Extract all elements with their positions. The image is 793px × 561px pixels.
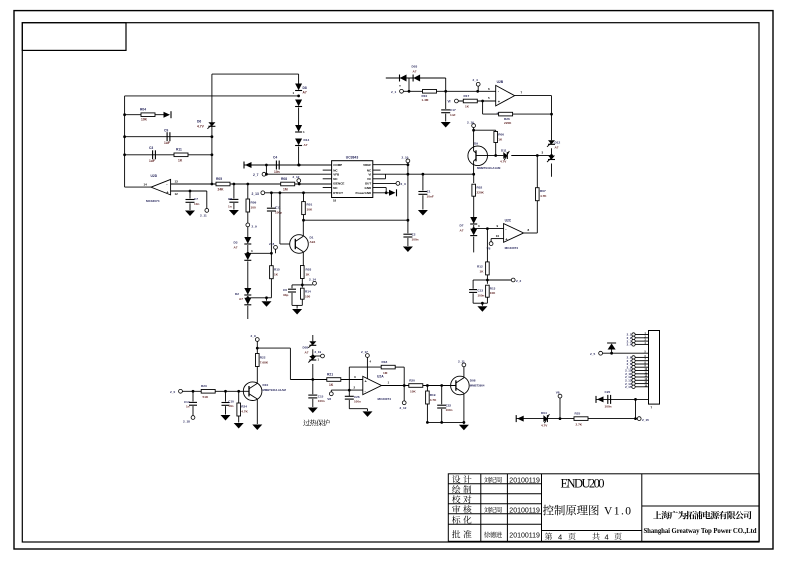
svg-text:A7: A7: [304, 143, 308, 147]
svg-text:C26: C26: [354, 395, 360, 399]
svg-text:C15: C15: [318, 395, 324, 399]
svg-text:2_9: 2_9: [252, 225, 257, 229]
svg-text:51K: 51K: [203, 395, 209, 399]
capacitor C11: [267, 193, 282, 254]
resistor R20: [409, 378, 423, 393]
svg-text:100n: 100n: [412, 238, 419, 242]
svg-text:1M: 1M: [283, 188, 288, 192]
title page 4 of 4: [545, 532, 622, 541]
wire 2_10 vertical: [407, 163, 410, 234]
svg-text:2_15: 2_15: [625, 385, 632, 389]
svg-text:R20: R20: [409, 378, 415, 382]
capacitor C14: [184, 391, 197, 415]
zener D12 upper: [547, 140, 560, 149]
wire Vr to U2B plus: [458, 100, 495, 103]
capacitor C2: [403, 233, 418, 247]
svg-text:20100119: 20100119: [509, 478, 540, 485]
svg-text:Shanghai Greatway Top Power CO: Shanghai Greatway Top Power CO.,Ltd: [644, 528, 757, 535]
ground arrow PowerGND: [389, 189, 397, 196]
svg-text:PowerGND: PowerGND: [356, 191, 373, 195]
svg-text:33p: 33p: [283, 293, 288, 297]
wire vertical D6 branch: [211, 74, 213, 184]
terminal 2_12 above ISENSE rail: [293, 175, 301, 184]
node D7 mid: [472, 224, 480, 230]
terminal 2_16 above D9: [467, 120, 476, 127]
svg-text:MC33074: MC33074: [505, 246, 519, 250]
terminal 2_3 OUT: [373, 182, 406, 187]
svg-text:4.7K: 4.7K: [540, 194, 547, 198]
op-amp U2B: [488, 80, 515, 115]
ground below D10: [252, 425, 262, 431]
diode D14 lower: [295, 138, 309, 147]
wire parallel bottom U2C: [473, 302, 487, 306]
svg-text:D14: D14: [304, 138, 310, 142]
terminal 2_9 below R09: [246, 223, 257, 229]
svg-text:A7: A7: [305, 350, 309, 354]
svg-text:n: n: [399, 84, 401, 88]
svg-text:R22: R22: [260, 355, 266, 359]
resistor R17: [463, 94, 477, 109]
diode D7 lower: [470, 229, 477, 236]
capacitor C9: [125, 129, 214, 145]
resistor R18: [381, 360, 395, 375]
wire top loop: [125, 95, 299, 97]
svg-text:R04: R04: [140, 108, 146, 112]
svg-text:R15: R15: [274, 268, 280, 272]
svg-text:R11: R11: [176, 148, 182, 152]
ground below U2A: [363, 411, 373, 417]
resistor R21: [327, 372, 356, 387]
svg-text:RTFCT: RTFCT: [333, 191, 343, 195]
capacitor C22: [437, 386, 452, 423]
svg-text:4: 4: [558, 532, 562, 541]
svg-text:R13: R13: [490, 287, 496, 291]
svg-text:D04: D04: [541, 411, 547, 415]
svg-text:D03: D03: [412, 64, 418, 68]
svg-text:A7: A7: [239, 297, 243, 301]
ground right of D2: [262, 301, 272, 307]
svg-text:4.7V: 4.7V: [197, 125, 205, 129]
svg-text:A94: A94: [310, 240, 316, 244]
resistor R12: [477, 229, 489, 282]
svg-text:2_0: 2_0: [170, 390, 175, 394]
svg-text:2_19: 2_19: [315, 350, 322, 354]
wire 2_1 line: [403, 90, 495, 93]
svg-text:2_11: 2_11: [200, 214, 207, 218]
svg-text:C6: C6: [283, 288, 287, 292]
terminal 2_14: [302, 277, 316, 285]
svg-text:C22: C22: [446, 403, 452, 407]
diode D3 lower: [244, 253, 251, 260]
wire D7 stub: [473, 237, 475, 253]
diode D03: [412, 64, 421, 81]
svg-text:C9: C9: [164, 129, 168, 133]
wire RTCT rail: [265, 191, 332, 194]
title block names: [484, 477, 502, 538]
wire R03 to node: [301, 279, 304, 287]
node junctions left rail: [123, 113, 126, 156]
svg-text:1n: 1n: [228, 205, 232, 209]
capacitor C4: [273, 156, 280, 174]
svg-text:D6: D6: [197, 120, 201, 124]
svg-text:1n: 1n: [186, 405, 190, 409]
ground below C17: [441, 122, 451, 128]
svg-text:4.7K: 4.7K: [241, 410, 248, 414]
resistor R03: [301, 266, 312, 279]
transistor D08: [451, 367, 485, 423]
resistor R25: [574, 411, 588, 426]
svg-text:10K: 10K: [141, 117, 148, 121]
node 3 D12: [550, 148, 553, 157]
terminal 2_11 below U2D: [200, 191, 209, 218]
ground below C15: [308, 408, 318, 414]
wire D2 stub: [247, 306, 249, 319]
svg-text:100: 100: [251, 206, 256, 210]
op-amp U2A: [363, 375, 391, 402]
svg-text:2_3: 2_3: [401, 182, 406, 186]
wire VFB rail: [265, 165, 332, 176]
company name CN: [653, 511, 751, 519]
terminal 2_4: [473, 78, 481, 91]
svg-text:A7: A7: [460, 229, 464, 233]
resistor R04: [125, 108, 164, 122]
capacitor C3: [125, 146, 214, 163]
svg-text:100p: 100p: [275, 211, 282, 215]
resistor R11: [174, 148, 188, 163]
power arrow D04 line: [516, 415, 524, 422]
svg-text:100n: 100n: [605, 405, 612, 409]
title block dates: [509, 478, 540, 540]
wire D04 line: [516, 417, 637, 420]
wire chain top stub: [298, 74, 300, 83]
svg-text:R21: R21: [327, 372, 333, 376]
svg-text:10nF: 10nF: [427, 195, 434, 199]
terminal 2_0: [170, 389, 182, 394]
svg-text:D3: D3: [234, 241, 238, 245]
svg-text:C2: C2: [412, 233, 416, 237]
svg-text:R07: R07: [540, 189, 546, 193]
svg-text:20100119: 20100119: [509, 533, 540, 540]
svg-text:1M: 1M: [383, 371, 388, 375]
svg-text:VFB: VFB: [333, 173, 340, 177]
svg-text:C10: C10: [228, 400, 234, 404]
resistor R22: [256, 348, 269, 382]
svg-text:D9: D9: [474, 141, 478, 145]
wire GND PowerGND: [373, 188, 390, 195]
resistor R06: [494, 130, 504, 155]
terminal Vr: [448, 99, 459, 104]
node D3 mid: [246, 245, 253, 255]
svg-text:2_16: 2_16: [467, 120, 474, 124]
svg-text:R12: R12: [477, 265, 483, 269]
wire collector branch: [257, 348, 363, 381]
svg-text:2_7: 2_7: [253, 173, 259, 177]
svg-text:D05: D05: [303, 345, 309, 349]
svg-text:4.7V: 4.7V: [541, 423, 548, 427]
svg-text:C1: C1: [427, 190, 431, 194]
svg-text:C13: C13: [478, 289, 484, 293]
capacitor C17: [441, 91, 456, 121]
wire D03 down: [445, 78, 447, 91]
resistor R14 parallel: [301, 285, 311, 306]
transistor D9: [468, 130, 501, 174]
IC right NC stub: [373, 169, 381, 171]
svg-text:U2A: U2A: [377, 375, 384, 379]
wire 2_16 down: [472, 128, 475, 132]
terminal 2_5: [590, 351, 602, 356]
resistor R26: [499, 112, 513, 125]
svg-text:V1.0: V1.0: [604, 506, 631, 518]
diode D13: [399, 75, 407, 88]
svg-text:MMBT9413.A1AM: MMBT9413.A1AM: [477, 166, 501, 170]
terminal 2_18 below C14: [183, 416, 195, 424]
IC U1 UC3843: [332, 155, 373, 202]
svg-text:R24: R24: [241, 405, 247, 409]
svg-text:R03: R03: [306, 268, 312, 272]
wire U2D in12: [171, 190, 207, 193]
svg-text:R05: R05: [216, 177, 222, 181]
svg-text:D10: D10: [263, 383, 269, 387]
svg-text:2_12: 2_12: [293, 175, 300, 179]
op-amp U2D: [125, 174, 179, 203]
terminal 2_17 above U2A: [361, 350, 372, 379]
label overheat protection: [303, 419, 330, 426]
wire chain bottom: [297, 147, 300, 167]
op-amp U2C: [504, 219, 524, 250]
resistor R10: [422, 90, 437, 103]
svg-text:R25: R25: [575, 411, 581, 415]
wire base node: [488, 154, 498, 157]
wire VREF to node 2_10: [373, 163, 410, 166]
wire parallel bottom: [292, 305, 302, 308]
svg-text:C4: C4: [273, 156, 277, 160]
node D2 mid wire to ground: [246, 296, 266, 301]
wire U2B output: [515, 90, 552, 140]
wire U2D in13 to ISENSE rail: [171, 183, 332, 186]
svg-text:7.68K: 7.68K: [260, 360, 269, 364]
capacitor C13 parallel: [469, 280, 487, 303]
svg-text:2_4: 2_4: [473, 78, 478, 82]
svg-text:R23: R23: [201, 384, 207, 388]
svg-text:10K: 10K: [410, 389, 416, 393]
IC left NC pin stubs: [323, 170, 332, 187]
svg-text:10K: 10K: [307, 208, 313, 212]
svg-text:2_14: 2_14: [309, 277, 316, 281]
diode D7 upper: [460, 217, 478, 233]
terminal 2_11 above D08: [458, 360, 466, 367]
svg-text:R06: R06: [498, 132, 504, 136]
svg-text:4.7V: 4.7V: [500, 159, 507, 163]
svg-text:R08: R08: [281, 177, 287, 181]
svg-text:A7: A7: [555, 145, 559, 149]
svg-text:R01: R01: [307, 203, 313, 207]
svg-text:2_11: 2_11: [458, 360, 465, 364]
svg-text:1K: 1K: [178, 159, 183, 163]
capacitor C26: [345, 395, 361, 409]
svg-text:R19: R19: [430, 393, 436, 397]
wire U2A feedback: [349, 367, 381, 396]
terminal V8 U2A: [327, 390, 333, 401]
svg-text:18: 18: [333, 199, 337, 203]
resistor R07: [536, 156, 548, 234]
svg-text:D2: D2: [235, 292, 239, 296]
terminal 2_19 mid D05: [311, 349, 324, 361]
wire center tap: [408, 78, 411, 93]
capacitor C8: [228, 184, 238, 210]
wire U2A minus input: [331, 386, 363, 392]
wire upper loop: [212, 73, 299, 75]
svg-text:10K: 10K: [490, 291, 496, 295]
terminal 2_7 VFB: [253, 172, 266, 177]
svg-text:1uF: 1uF: [149, 159, 155, 163]
wire chain mid: [298, 108, 300, 126]
ground below R24: [234, 423, 244, 429]
wire VI rail: [373, 173, 475, 176]
svg-text:COMP: COMP: [333, 163, 342, 167]
ground below C1: [418, 210, 428, 216]
diode D3 upper: [234, 237, 252, 250]
wire collector line: [302, 219, 408, 222]
wire U2B feedback: [483, 101, 553, 116]
svg-text:MC33074: MC33074: [378, 397, 392, 401]
ground below C2: [403, 247, 413, 253]
svg-text:U2D: U2D: [151, 174, 158, 178]
svg-text:2_4: 2_4: [627, 343, 632, 347]
svg-text:1uF: 1uF: [164, 141, 170, 145]
zener D12 lower: [547, 156, 555, 163]
wire U2C output: [524, 228, 538, 233]
svg-text:R02: R02: [477, 186, 483, 190]
svg-text:1K: 1K: [329, 383, 334, 387]
zener D05 lower: [308, 356, 316, 380]
ground below R13: [477, 306, 487, 312]
svg-text:D7: D7: [460, 224, 464, 228]
svg-text:GND: GND: [365, 186, 373, 190]
svg-text:10: 10: [496, 234, 500, 238]
terminal 2_8: [269, 242, 277, 253]
capacitor C10: [222, 391, 235, 414]
svg-text:10n: 10n: [194, 202, 199, 206]
svg-text:2_17: 2_17: [361, 350, 368, 354]
terminal 2_9 bottom: [251, 334, 260, 341]
svg-text:UC3843: UC3843: [346, 155, 359, 159]
svg-text:D12: D12: [555, 140, 561, 144]
resistor R23: [201, 384, 215, 399]
svg-text:A7: A7: [234, 246, 238, 250]
wire 2_0 to base: [182, 390, 243, 393]
capacitor C20: [605, 390, 612, 409]
terminal 2_1: [391, 89, 403, 94]
svg-text:4.7K: 4.7K: [430, 398, 437, 402]
connector pins: [625, 333, 648, 389]
power arrow COMP rail: [244, 162, 252, 169]
svg-text:U2C: U2C: [505, 219, 512, 223]
svg-text:ENDU200: ENDU200: [561, 477, 605, 491]
wire D7 to U2C minus: [474, 224, 504, 230]
resistor R13 parallel: [486, 280, 497, 303]
connector J1: [649, 331, 660, 410]
svg-text:2_8: 2_8: [269, 242, 274, 246]
wire C20 line: [596, 398, 649, 401]
title control schematic V1.0: [543, 505, 631, 518]
svg-text:20100119: 20100119: [509, 508, 540, 515]
svg-text:C20: C20: [605, 390, 611, 394]
svg-text:D08: D08: [470, 379, 476, 383]
zener D04: [541, 411, 549, 427]
svg-text:2_2: 2_2: [516, 279, 521, 283]
capacitor C6 parallel: [283, 285, 302, 306]
svg-text:2_5: 2_5: [590, 352, 595, 356]
wire C11 node to D3 node: [248, 252, 273, 255]
svg-text:2_13: 2_13: [252, 192, 260, 196]
svg-text:C8: C8: [228, 197, 232, 201]
svg-text:MMBT3904: MMBT3904: [470, 384, 485, 388]
svg-text:10n: 10n: [274, 170, 280, 174]
diode D2 upper: [235, 288, 251, 301]
terminal 2_15: [637, 417, 649, 422]
power arrow after R04: [164, 111, 172, 118]
title block row labels: [452, 475, 472, 538]
company name EN: [644, 528, 757, 535]
transistor D10: [243, 382, 286, 424]
zener D05 upper: [303, 341, 317, 354]
svg-text:13: 13: [175, 179, 179, 183]
zener D11: [496, 148, 538, 163]
svg-text:2.7K: 2.7K: [576, 422, 583, 426]
wire emitter rail: [426, 421, 465, 424]
diode D8 upper: [295, 84, 307, 95]
ground below C8: [229, 210, 239, 216]
svg-text:C3: C3: [149, 146, 153, 150]
resistor R15: [265, 253, 280, 299]
top-left revision box: [22, 23, 126, 51]
resistor R02: [472, 174, 485, 217]
svg-text:D8: D8: [303, 86, 307, 90]
ground below C10: [221, 415, 231, 421]
terminal 2_12 below output: [400, 386, 407, 410]
svg-text:2_10: 2_10: [402, 156, 409, 160]
wire 2_9 down: [256, 341, 259, 349]
svg-text:100n: 100n: [478, 293, 485, 297]
svg-text:D11: D11: [501, 148, 507, 152]
node 3 junction: [536, 151, 552, 157]
svg-text:A7: A7: [303, 91, 307, 95]
svg-text:MC33074: MC33074: [146, 199, 160, 203]
wire RTCT to D1 base: [280, 193, 290, 244]
svg-text:V8: V8: [327, 397, 331, 401]
resistor R01: [302, 193, 313, 220]
svg-text:4: 4: [605, 532, 609, 541]
wire R09 terminal to D3: [247, 227, 249, 237]
terminal V8 bottom: [556, 391, 562, 419]
svg-text:2_12: 2_12: [400, 406, 407, 410]
svg-text:100n: 100n: [318, 399, 325, 403]
wire feedback right: [395, 367, 405, 387]
svg-text:2_1: 2_1: [391, 90, 396, 94]
svg-text:2_15: 2_15: [642, 418, 649, 422]
transistor D1: [290, 220, 316, 266]
svg-text:VI: VI: [368, 173, 371, 177]
terminal 2_10: [402, 156, 410, 163]
power arrow C20 line: [596, 396, 604, 403]
svg-text:D1: D1: [310, 236, 314, 240]
svg-text:2_9: 2_9: [251, 334, 256, 338]
svg-text:100n: 100n: [446, 408, 453, 412]
terminal V8 U2C: [487, 234, 504, 250]
capacitor C15: [308, 380, 325, 408]
wire VC stub: [373, 174, 386, 179]
resistor R05: [216, 177, 230, 192]
